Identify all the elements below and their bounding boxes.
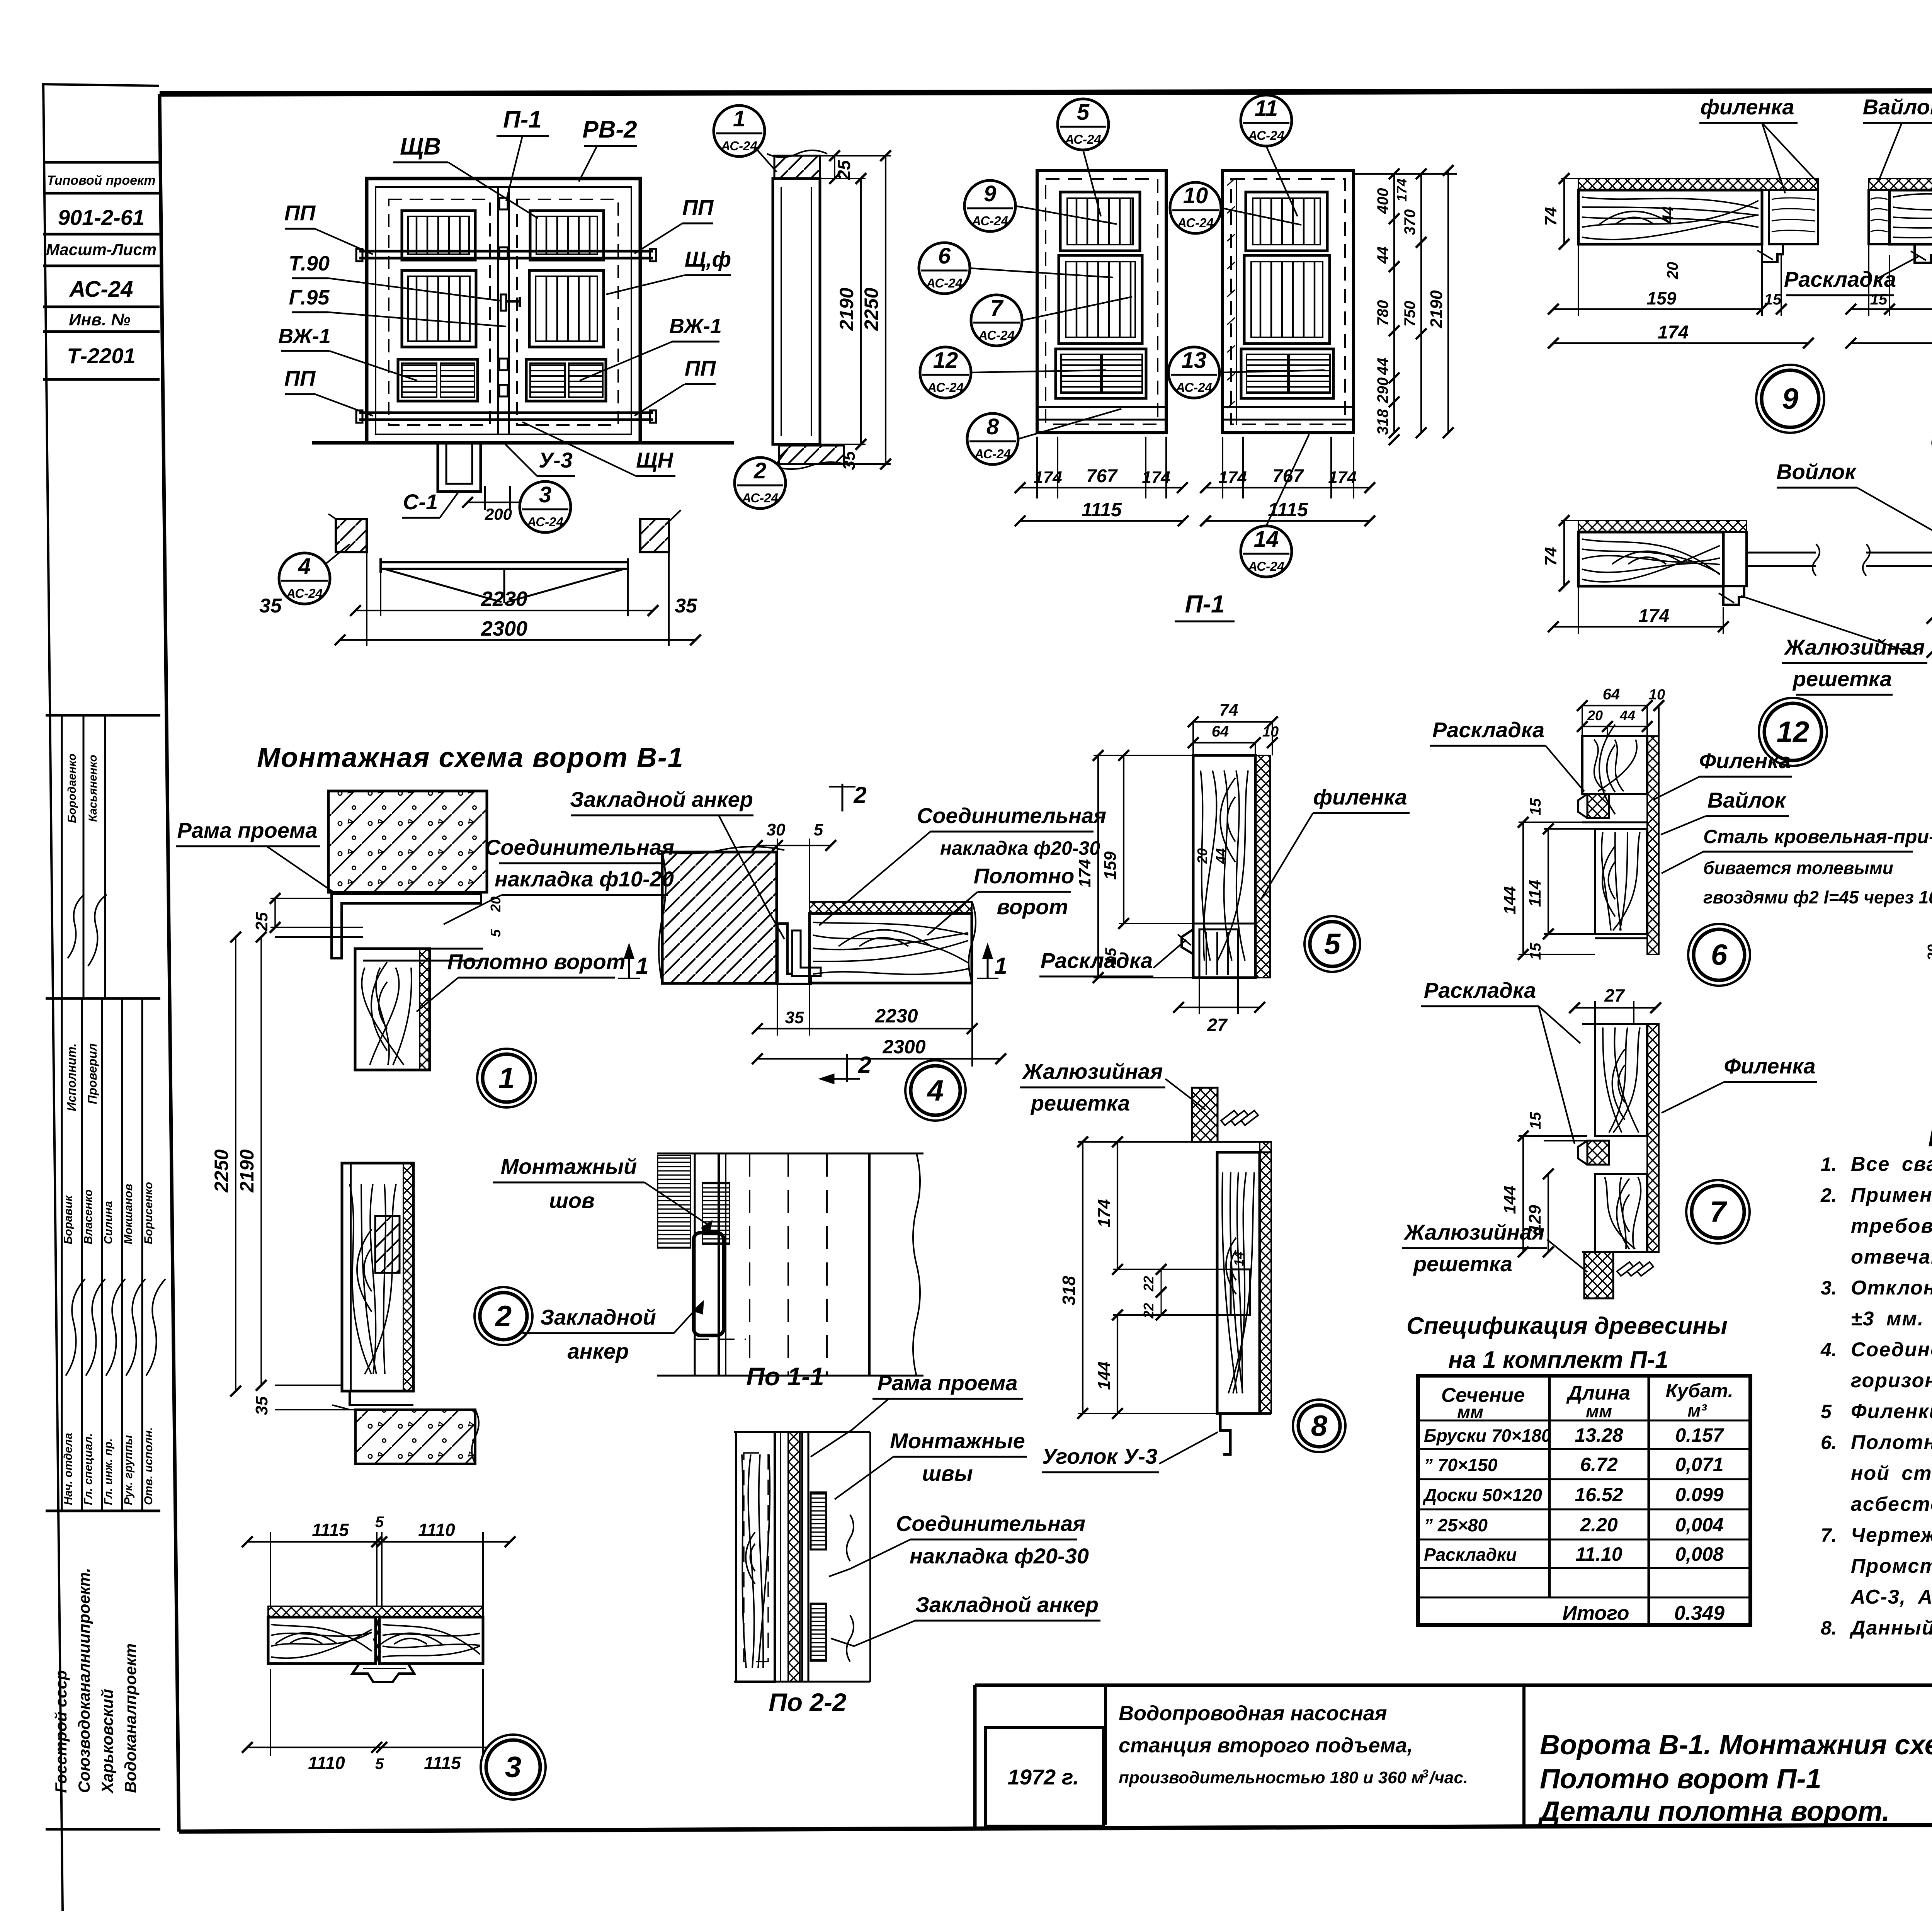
detail 7 felt strip bbox=[1647, 1024, 1659, 1252]
svg-text:5: 5 bbox=[375, 1514, 384, 1531]
svg-text:шов: шов bbox=[549, 1188, 595, 1213]
detail 3 dims top bbox=[270, 1532, 271, 1606]
svg-text:Т-2201: Т-2201 bbox=[67, 344, 135, 368]
detail 6 left dims bbox=[1519, 822, 1587, 823]
svg-text:780: 780 bbox=[1374, 300, 1391, 326]
P-1 right middle window bbox=[1244, 255, 1330, 344]
svg-text:Закладной: Закладной bbox=[540, 1305, 656, 1329]
svg-text:Детали полотна ворот.: Детали полотна ворот. bbox=[1537, 1796, 1890, 1827]
detail 7 louver bottom bbox=[1584, 1252, 1613, 1298]
svg-text:15: 15 bbox=[1870, 291, 1888, 308]
svg-text:отвечать ГОСТ 475-70 „Окна и: отвечать ГОСТ 475-70 „Окна и двери дерев… bbox=[1851, 1246, 1932, 1268]
svg-text:2.: 2. bbox=[1820, 1184, 1837, 1206]
P-1 left middle window bbox=[1059, 255, 1142, 344]
svg-text:филенка: филенка bbox=[1700, 95, 1794, 119]
detail circle 1 bbox=[477, 1049, 536, 1107]
detail circle 12 bbox=[1759, 698, 1827, 766]
svg-text:1972 г.: 1972 г. bbox=[1008, 1765, 1079, 1789]
detail 4 labels 30 5 bbox=[777, 839, 778, 924]
svg-text:Раскладка: Раскладка bbox=[1432, 718, 1544, 742]
svg-text:11: 11 bbox=[1255, 96, 1278, 121]
svg-text:5: 5 bbox=[1324, 928, 1341, 961]
svg-text:ПП: ПП bbox=[284, 366, 316, 390]
svg-text:35: 35 bbox=[785, 1008, 804, 1027]
svg-text:ВЖ-1: ВЖ-1 bbox=[278, 325, 331, 348]
svg-text:требования к обработке дерев: требования к обработке деревянных элемен… bbox=[1851, 1215, 1932, 1237]
svg-text:1: 1 bbox=[636, 953, 648, 979]
gate center stile bbox=[497, 187, 499, 434]
dim 25 top bbox=[834, 156, 835, 179]
svg-text:АС-24: АС-24 bbox=[1177, 216, 1214, 230]
Po 1-1 top line bbox=[657, 1153, 923, 1155]
svg-text:ЩВ: ЩВ bbox=[400, 133, 441, 160]
svg-text:ворот: ворот bbox=[997, 895, 1068, 919]
svg-text:накладка ф10-20: накладка ф10-20 bbox=[495, 867, 674, 891]
svg-text:2300: 2300 bbox=[481, 617, 527, 640]
section marks 1-1 bbox=[628, 946, 630, 978]
svg-text:174: 174 bbox=[1658, 322, 1689, 343]
svg-text:2190: 2190 bbox=[1427, 290, 1446, 328]
svg-text:14: 14 bbox=[1254, 527, 1279, 552]
svg-text:15: 15 bbox=[1764, 291, 1782, 308]
svg-text:АС-24: АС-24 bbox=[742, 491, 778, 505]
P-1 right top window bbox=[1246, 192, 1327, 251]
svg-text:Соединительная: Соединительная bbox=[917, 803, 1106, 828]
detail 5 wood body bbox=[1193, 755, 1255, 978]
detail 5 felt strip bbox=[1255, 755, 1270, 978]
svg-text:Соединительная: Соединительная bbox=[896, 1511, 1085, 1536]
svg-text:Итого: Итого bbox=[1563, 1602, 1629, 1624]
marker circle 1/AC-24 bbox=[714, 105, 765, 156]
Po 1-1 weld hatch areas bbox=[658, 1155, 690, 1248]
svg-text:1110: 1110 bbox=[418, 1520, 455, 1540]
svg-text:По 2-2: По 2-2 bbox=[769, 1688, 847, 1716]
gate left middle window bbox=[402, 270, 476, 347]
svg-text:2.20: 2.20 bbox=[1580, 1514, 1618, 1536]
drawing frame border bbox=[160, 90, 1932, 94]
svg-text:Сталь кровельная: Сталь кровельная bbox=[1930, 429, 1932, 454]
detail 7 upper wood piece bbox=[1595, 1024, 1647, 1136]
detail 4 masonry jamb bbox=[662, 852, 777, 983]
svg-text:6.: 6. bbox=[1821, 1432, 1837, 1453]
gate rail PP bottom bbox=[359, 412, 653, 414]
svg-text:П-1: П-1 bbox=[1185, 590, 1225, 618]
detail 8 wood body bbox=[1217, 1152, 1260, 1414]
svg-text:Щ,ф: Щ,ф bbox=[685, 247, 731, 271]
svg-text:Союзводоканалниипроект.: Союзводоканалниипроект. bbox=[75, 1568, 93, 1793]
svg-text:9: 9 bbox=[1782, 383, 1798, 415]
svg-text:м³: м³ bbox=[1687, 1400, 1707, 1420]
svg-text:13.28: 13.28 bbox=[1575, 1424, 1623, 1446]
svg-text:22: 22 bbox=[1141, 1303, 1156, 1319]
detail 12 assembly bbox=[1578, 520, 1747, 532]
svg-text:РВ-2: РВ-2 bbox=[582, 116, 637, 143]
svg-text:318: 318 bbox=[1059, 1276, 1079, 1305]
Po 2-2 anchor plates bbox=[811, 1492, 826, 1550]
detail 4 bottom dims bbox=[777, 984, 778, 1036]
gate sill detail : left wall block bbox=[336, 519, 367, 552]
svg-text:Примечания:: Примечания: bbox=[1928, 1121, 1932, 1152]
svg-text:Раскладки: Раскладки bbox=[1424, 1544, 1517, 1565]
svg-text:174: 174 bbox=[1394, 179, 1410, 202]
svg-text:±3 мм. Перекос полотна в пл: ±3 мм. Перекос полотна в плоскости ворот… bbox=[1851, 1308, 1932, 1330]
detail 6 upper wood piece bbox=[1582, 736, 1647, 794]
marker circle 2/AC-24 bbox=[735, 458, 786, 509]
detail 6 felt strip bbox=[1647, 736, 1659, 954]
detail circle 3 bbox=[481, 1735, 546, 1800]
svg-text:2230: 2230 bbox=[481, 587, 527, 611]
svg-text:Рук. группы: Рук. группы bbox=[122, 1435, 135, 1505]
svg-text:1: 1 bbox=[994, 953, 1007, 979]
dim 2190 bbox=[820, 178, 866, 179]
svg-text:Боравик: Боравик bbox=[62, 1195, 75, 1244]
svg-text:44: 44 bbox=[1213, 848, 1229, 864]
svg-text:3.: 3. bbox=[1821, 1277, 1837, 1299]
S-1 bracket below gate bbox=[438, 444, 481, 492]
svg-text:Чертеж заимствован из типово: Чертеж заимствован из типового проекта 4… bbox=[1851, 1524, 1932, 1546]
gate hinges on stile bbox=[499, 198, 508, 209]
svg-text:20: 20 bbox=[1587, 708, 1603, 723]
Po 1-1 bottom line bbox=[657, 1375, 923, 1377]
svg-text:8: 8 bbox=[1311, 1410, 1328, 1442]
gate rail PP top bbox=[359, 250, 653, 253]
svg-text:767: 767 bbox=[1086, 466, 1118, 486]
svg-text:ной сталью по войлоку смоч: ной сталью по войлоку смоченному в глине… bbox=[1851, 1462, 1932, 1485]
svg-text:44: 44 bbox=[1660, 206, 1677, 224]
leaf side section body bbox=[773, 179, 820, 444]
detail 3 center joint bbox=[374, 1617, 380, 1664]
svg-text:27: 27 bbox=[1207, 1015, 1228, 1035]
detail circle 8 bbox=[1293, 1400, 1345, 1452]
svg-text:174: 174 bbox=[1095, 1199, 1114, 1227]
svg-text:Спецификация древесины: Спецификация древесины bbox=[1406, 1313, 1728, 1339]
detail 8 louver top bbox=[1192, 1088, 1218, 1142]
svg-text:15: 15 bbox=[1527, 942, 1544, 960]
sheet outer left edge line bbox=[43, 83, 63, 1911]
svg-text:мм: мм bbox=[1586, 1401, 1612, 1421]
svg-text:0,004: 0,004 bbox=[1675, 1514, 1723, 1536]
svg-text:ПП: ПП bbox=[284, 201, 316, 225]
detail 3 bottom raskladka bbox=[352, 1664, 414, 1682]
detail 2 bottom angle and sill bbox=[342, 1390, 413, 1392]
detail 7 left dims bbox=[1519, 1135, 1587, 1137]
svg-text:4.: 4. bbox=[1820, 1339, 1837, 1361]
svg-text:144: 144 bbox=[1095, 1361, 1114, 1390]
svg-text:44: 44 bbox=[1374, 358, 1391, 376]
svg-text:АС-24: АС-24 bbox=[927, 380, 964, 395]
P-1 dims under left leaf bbox=[1036, 437, 1038, 498]
P-1 right louver bbox=[1241, 349, 1333, 398]
left vertical dims 2250 2190 bbox=[275, 936, 363, 938]
svg-text:решетка: решетка bbox=[1792, 667, 1892, 691]
svg-text:44: 44 bbox=[1374, 247, 1391, 264]
svg-text:74: 74 bbox=[1219, 701, 1238, 720]
svg-text:7.: 7. bbox=[1821, 1524, 1837, 1546]
svg-text:швы: швы bbox=[922, 1461, 973, 1485]
detail 10 assembly bbox=[1869, 179, 1932, 190]
svg-text:114: 114 bbox=[1526, 880, 1544, 907]
svg-text:174: 174 bbox=[1142, 468, 1170, 487]
gate right top window bbox=[530, 211, 604, 260]
detail 9 assembly bbox=[1578, 179, 1818, 190]
svg-text:0,071: 0,071 bbox=[1675, 1454, 1723, 1475]
gate sill brace diagonals bbox=[386, 570, 502, 602]
detail 13 rail to left bbox=[1866, 552, 1932, 554]
svg-text:Жалюзийная: Жалюзийная bbox=[1403, 1220, 1545, 1244]
P-1 right leaf hinge strip bbox=[1236, 179, 1237, 425]
svg-text:22: 22 bbox=[1141, 1276, 1156, 1292]
svg-text:Полотно ворот: Полотно ворот bbox=[447, 949, 625, 974]
svg-text:ПП: ПП bbox=[682, 195, 714, 219]
svg-text:Все сварные монтажные швы счи: Все сварные монтажные швы считать толщин… bbox=[1851, 1153, 1932, 1175]
svg-text:5: 5 bbox=[375, 1755, 384, 1772]
svg-text:Монтажные: Монтажные bbox=[890, 1429, 1025, 1453]
detail 6 raskladka block bbox=[1587, 794, 1609, 818]
P-1 left bottom rail bbox=[1037, 406, 1166, 408]
detail 3 dims bottom bbox=[270, 1669, 271, 1756]
svg-text:Мокшанов: Мокшанов bbox=[122, 1184, 135, 1244]
svg-text:4: 4 bbox=[298, 554, 311, 579]
detail 10 raskladka profile bbox=[1915, 244, 1932, 263]
detail 7 lower wood piece bbox=[1595, 1174, 1647, 1252]
svg-text:8.: 8. bbox=[1821, 1617, 1837, 1639]
svg-text:АС-24: АС-24 bbox=[1248, 128, 1284, 143]
svg-text:174: 174 bbox=[1218, 468, 1247, 487]
svg-text:318: 318 bbox=[1374, 409, 1391, 435]
svg-text:30: 30 bbox=[767, 820, 786, 839]
svg-text:174: 174 bbox=[1034, 468, 1062, 487]
svg-text:Раскладка: Раскладка bbox=[1784, 267, 1896, 291]
svg-text:Монтажная схема ворот В-1: Монтажная схема ворот В-1 bbox=[257, 742, 684, 773]
svg-text:на 1 комплект П-1: на 1 комплект П-1 bbox=[1448, 1347, 1668, 1373]
svg-text:2: 2 bbox=[753, 458, 766, 483]
svg-text:174: 174 bbox=[1638, 606, 1669, 626]
svg-text:Вайлок: Вайлок bbox=[1863, 95, 1932, 119]
detail 6 middle wood piece bbox=[1595, 829, 1647, 934]
svg-text:Проверил: Проверил bbox=[85, 1043, 99, 1104]
svg-text:13: 13 bbox=[1182, 348, 1207, 373]
svg-text:Исполнит.: Исполнит. bbox=[65, 1043, 78, 1111]
svg-text:Филенки ворот следует собир: Филенки ворот следует собирать из досок … bbox=[1851, 1400, 1932, 1423]
title block 1972 box bbox=[985, 1727, 1104, 1826]
svg-text:бивается толевыми: бивается толевыми bbox=[1703, 858, 1893, 878]
P-1 right bottom rail bbox=[1223, 406, 1354, 408]
detail 2 anchor block bbox=[375, 1216, 400, 1273]
svg-text:0.349: 0.349 bbox=[1674, 1602, 1725, 1624]
svg-text:64: 64 bbox=[1603, 686, 1620, 703]
svg-text:144: 144 bbox=[1500, 1186, 1519, 1214]
svg-text:АС-24: АС-24 bbox=[1175, 380, 1212, 395]
svg-text:П-1: П-1 bbox=[503, 106, 542, 133]
svg-text:Масшт-Лист: Масшт-Лист bbox=[46, 240, 156, 259]
gate right middle window bbox=[529, 270, 604, 347]
ground line bbox=[312, 441, 734, 445]
svg-text:Соединительная: Соединительная bbox=[485, 835, 674, 859]
gate right leaf dashed outline bbox=[517, 199, 618, 425]
detail 1 concrete lintel bbox=[328, 791, 487, 892]
svg-text:Гл. инж. пр.: Гл. инж. пр. bbox=[102, 1438, 115, 1505]
svg-text:Полотно ворот П-1: Полотно ворот П-1 bbox=[1540, 1764, 1821, 1795]
svg-text:Водопроводная насосная: Водопроводная насосная bbox=[1119, 1702, 1387, 1725]
svg-text:1: 1 bbox=[498, 1062, 515, 1095]
P-1 dims under right leaf bbox=[1222, 437, 1223, 498]
detail 3 boards bbox=[268, 1606, 483, 1617]
svg-text:25: 25 bbox=[834, 160, 854, 180]
svg-text:Г.95: Г.95 bbox=[289, 286, 330, 309]
svg-text:Власенко: Власенко bbox=[82, 1189, 95, 1244]
svg-text:3: 3 bbox=[1422, 1767, 1429, 1780]
svg-text:200: 200 bbox=[485, 505, 512, 523]
detail 9 raskladka profile bbox=[1762, 244, 1783, 262]
Po 2-2 right boundary bbox=[869, 1432, 871, 1682]
detail 7 raskladka block bbox=[1587, 1141, 1609, 1165]
svg-text:2190: 2190 bbox=[836, 287, 857, 331]
svg-text:станция второго подъема,: станция второго подъема, bbox=[1119, 1734, 1413, 1757]
svg-text:2300: 2300 bbox=[882, 1036, 925, 1058]
Po 2-2 felt strip bbox=[788, 1432, 800, 1682]
svg-text:16.52: 16.52 bbox=[1575, 1484, 1623, 1505]
svg-text:мм: мм bbox=[1457, 1402, 1483, 1422]
svg-text:25: 25 bbox=[252, 912, 271, 931]
marker circles 5..14 around P-1 bbox=[1058, 99, 1109, 150]
svg-text:400: 400 bbox=[1374, 188, 1391, 214]
svg-text:Соединение обвязок полотен: Соединение обвязок полотен ворот в углах… bbox=[1851, 1339, 1932, 1361]
dim 2300 bbox=[366, 552, 367, 646]
svg-text:Полотна ворот с внутренней: Полотна ворот с внутренней стороны обшив… bbox=[1851, 1431, 1932, 1454]
svg-text:4: 4 bbox=[927, 1074, 944, 1107]
svg-text:5: 5 bbox=[814, 820, 823, 839]
svg-text:14: 14 bbox=[1232, 1252, 1247, 1266]
detail 5 dim 27 bbox=[1199, 978, 1200, 1014]
svg-text:АС-3, АС-5, АС-6.: АС-3, АС-5, АС-6. bbox=[1850, 1586, 1932, 1608]
svg-text:Жалюзийная: Жалюзийная bbox=[1784, 635, 1925, 659]
top wall block hatched bbox=[774, 156, 820, 179]
detail 8 bottom angle U-3 bbox=[1217, 1412, 1271, 1415]
marker circle 3/AC-24 bbox=[520, 481, 571, 532]
detail 8 top rails bbox=[1192, 1141, 1271, 1143]
P-1 right leaf outline bbox=[1223, 170, 1354, 433]
svg-text:27: 27 bbox=[1604, 985, 1625, 1005]
svg-text:Применяемая при изготовлении: Применяемая при изготовлении ворот древе… bbox=[1851, 1184, 1932, 1206]
detail 12 rail to right bbox=[1747, 552, 1816, 554]
svg-text:15: 15 bbox=[1527, 798, 1544, 815]
svg-text:Бруски 70×180: Бруски 70×180 bbox=[1424, 1425, 1551, 1446]
detail circle 2 bbox=[474, 1287, 532, 1345]
svg-text:1115: 1115 bbox=[1082, 499, 1122, 520]
svg-text:Борисенко: Борисенко bbox=[142, 1182, 155, 1244]
svg-text:” 25×80: ” 25×80 bbox=[1424, 1515, 1488, 1535]
svg-text:Типовой проект: Типовой проект bbox=[47, 173, 155, 188]
detail 12 dims bbox=[1578, 586, 1579, 634]
svg-text:20: 20 bbox=[1194, 848, 1210, 864]
svg-text:АС-24: АС-24 bbox=[1248, 559, 1284, 573]
svg-text:64: 64 bbox=[1212, 723, 1229, 740]
svg-text:гвоздями ф2 l=45 через 100.: гвоздями ф2 l=45 через 100. bbox=[1703, 887, 1932, 907]
svg-text:У-3: У-3 bbox=[539, 448, 573, 472]
svg-text:Госстрой ссср: Госстрой ссср bbox=[52, 1670, 70, 1793]
svg-text:1115: 1115 bbox=[424, 1753, 461, 1773]
svg-text:ПП: ПП bbox=[685, 356, 716, 380]
svg-text:2250: 2250 bbox=[861, 287, 882, 331]
svg-text:5: 5 bbox=[1821, 1401, 1832, 1422]
svg-text:АС-24: АС-24 bbox=[978, 328, 1015, 342]
svg-text:Войлок: Войлок bbox=[1776, 459, 1857, 484]
svg-text:74: 74 bbox=[1541, 207, 1560, 226]
left stamp column top table bbox=[43, 84, 159, 86]
svg-text:370: 370 bbox=[1401, 209, 1418, 235]
detail 5 left dims bbox=[1094, 755, 1193, 756]
svg-text:Полотно: Полотно bbox=[974, 864, 1075, 888]
bottom wall block hatched bbox=[779, 446, 844, 464]
svg-text:ВЖ-1: ВЖ-1 bbox=[669, 315, 722, 338]
dim 200 under gate bbox=[484, 486, 486, 510]
marker circle 4/AC-24 bbox=[279, 553, 330, 604]
detail 2 leaf body bbox=[342, 1163, 413, 1391]
spec table grid bbox=[1418, 1376, 1750, 1625]
svg-text:АС-24: АС-24 bbox=[926, 276, 963, 290]
P-1 left louver bbox=[1056, 349, 1146, 398]
svg-text:Раскладка: Раскладка bbox=[1041, 948, 1153, 973]
svg-text:159: 159 bbox=[1647, 288, 1677, 308]
detail circle 7 bbox=[1686, 1180, 1750, 1243]
svg-text:767: 767 bbox=[1272, 466, 1304, 486]
Po 1-1 anchor outline bbox=[694, 1233, 724, 1335]
section marks 2-2 bbox=[842, 784, 844, 811]
svg-text:750: 750 bbox=[1401, 301, 1418, 327]
P-1 right vertical dim chains bbox=[1354, 173, 1457, 175]
svg-text:Доски 50×120: Доски 50×120 bbox=[1422, 1485, 1542, 1505]
svg-text:35: 35 bbox=[259, 595, 282, 617]
svg-text:2: 2 bbox=[858, 1052, 871, 1078]
gate elevation outer frame bbox=[367, 179, 640, 443]
svg-text:Вайлок: Вайлок bbox=[1708, 788, 1787, 812]
detail circle 5 bbox=[1304, 916, 1360, 972]
detail 9 dims bbox=[1578, 244, 1579, 316]
svg-text:АС-24: АС-24 bbox=[69, 277, 133, 302]
svg-text:9: 9 bbox=[984, 181, 996, 206]
svg-text:2250: 2250 bbox=[211, 1149, 232, 1192]
detail circle 6 bbox=[1688, 924, 1750, 986]
detail 12 raskladka bbox=[1723, 586, 1744, 605]
svg-text:Данный лист рассматривать с: Данный лист рассматривать совместно с ли… bbox=[1849, 1617, 1932, 1639]
svg-text:Уголок У-3: Уголок У-3 bbox=[1042, 1444, 1157, 1468]
svg-text:174: 174 bbox=[1075, 859, 1094, 887]
svg-text:Гл. специал.: Гл. специал. bbox=[82, 1433, 95, 1505]
svg-text:1.: 1. bbox=[1821, 1153, 1837, 1175]
svg-text:Т.90: Т.90 bbox=[289, 252, 330, 275]
svg-text:12: 12 bbox=[1777, 716, 1810, 748]
detail 5 raskladka notch bbox=[1182, 929, 1193, 954]
svg-text:АС-24: АС-24 bbox=[721, 139, 757, 153]
detail 1 leaf top rail bbox=[363, 948, 483, 950]
detail 4 leaf section bbox=[810, 902, 972, 913]
svg-text:5: 5 bbox=[1077, 100, 1090, 125]
svg-text:Ворота В-1. Монтажния: Ворота В-1. Монтажния схема bbox=[1540, 1730, 1932, 1761]
svg-text:АС-24: АС-24 bbox=[971, 214, 1008, 228]
gate left leaf dashed outline bbox=[389, 199, 490, 425]
svg-text:0.157: 0.157 bbox=[1675, 1424, 1724, 1446]
title block outline bbox=[975, 1684, 1932, 1687]
svg-text:Сталь кровельная-при-: Сталь кровельная-при- bbox=[1703, 826, 1932, 847]
svg-text:АС-24: АС-24 bbox=[527, 515, 563, 529]
gate sill detail : right wall block bbox=[640, 519, 669, 552]
svg-text:накладка ф20-30: накладка ф20-30 bbox=[910, 1544, 1089, 1568]
svg-text:2: 2 bbox=[853, 782, 866, 808]
svg-text:Кубат.: Кубат. bbox=[1666, 1380, 1733, 1402]
svg-text:3: 3 bbox=[539, 482, 551, 507]
svg-text:Нач. отдела: Нач. отдела bbox=[62, 1433, 75, 1505]
svg-text:Силина: Силина bbox=[102, 1201, 115, 1244]
